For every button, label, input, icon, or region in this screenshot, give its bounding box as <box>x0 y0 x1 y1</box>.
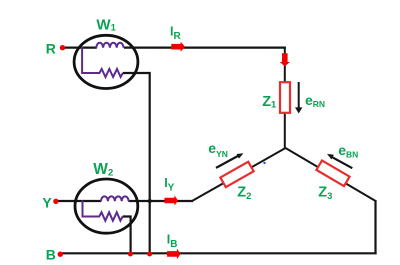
wire Z3 diagonal <box>286 148 376 201</box>
svg-text:R: R <box>46 40 56 56</box>
resistor W2 pressure coil zigzag <box>99 212 122 220</box>
wire W1 pressure-coil branch (purple leads) <box>82 47 100 73</box>
node junction W1 coil on B <box>147 252 152 257</box>
wire W2 pressure-coil branch (purple leads) <box>83 201 100 217</box>
impedance Z3 rectangle <box>316 160 349 186</box>
arrow I_R red <box>171 42 185 52</box>
node junction W2 coil on B <box>128 252 133 257</box>
node B terminal dot <box>58 252 63 257</box>
impedance Z1 rectangle <box>280 82 290 113</box>
node R terminal dot <box>60 45 65 50</box>
inductor W2 current coil <box>101 196 129 201</box>
wire W1 pressure coil to B line <box>123 73 150 253</box>
arrow e_BN black up-left <box>332 157 353 168</box>
wire right vertical <box>374 200 376 254</box>
resistor W1 pressure coil zigzag <box>99 69 122 77</box>
impedance Z2 rectangle <box>220 162 253 187</box>
wire R line <box>63 46 97 48</box>
arrow red down into Z1 <box>280 53 290 66</box>
inductor W1 current coil <box>96 43 123 48</box>
arrow e_YN black up-right <box>216 155 239 168</box>
svg-text:Y: Y <box>42 195 52 211</box>
wire Y line <box>57 200 101 202</box>
node stray blue dot <box>263 162 265 164</box>
node crossing dot on Y <box>148 199 152 203</box>
wire W2 pressure coil to B line <box>123 217 131 254</box>
arrow e_RN black down <box>298 82 300 108</box>
node Y terminal dot <box>53 199 58 204</box>
svg-text:B: B <box>46 246 56 262</box>
arrow I_B red <box>167 249 181 260</box>
wire Z2 diagonal <box>192 148 286 201</box>
arrow I_Y red <box>165 195 179 205</box>
wattmeter W1 ellipse <box>74 35 138 88</box>
wire Z1 drop vertical <box>284 47 286 149</box>
wire B line <box>62 252 377 254</box>
wattmeter W2 ellipse <box>75 179 138 233</box>
